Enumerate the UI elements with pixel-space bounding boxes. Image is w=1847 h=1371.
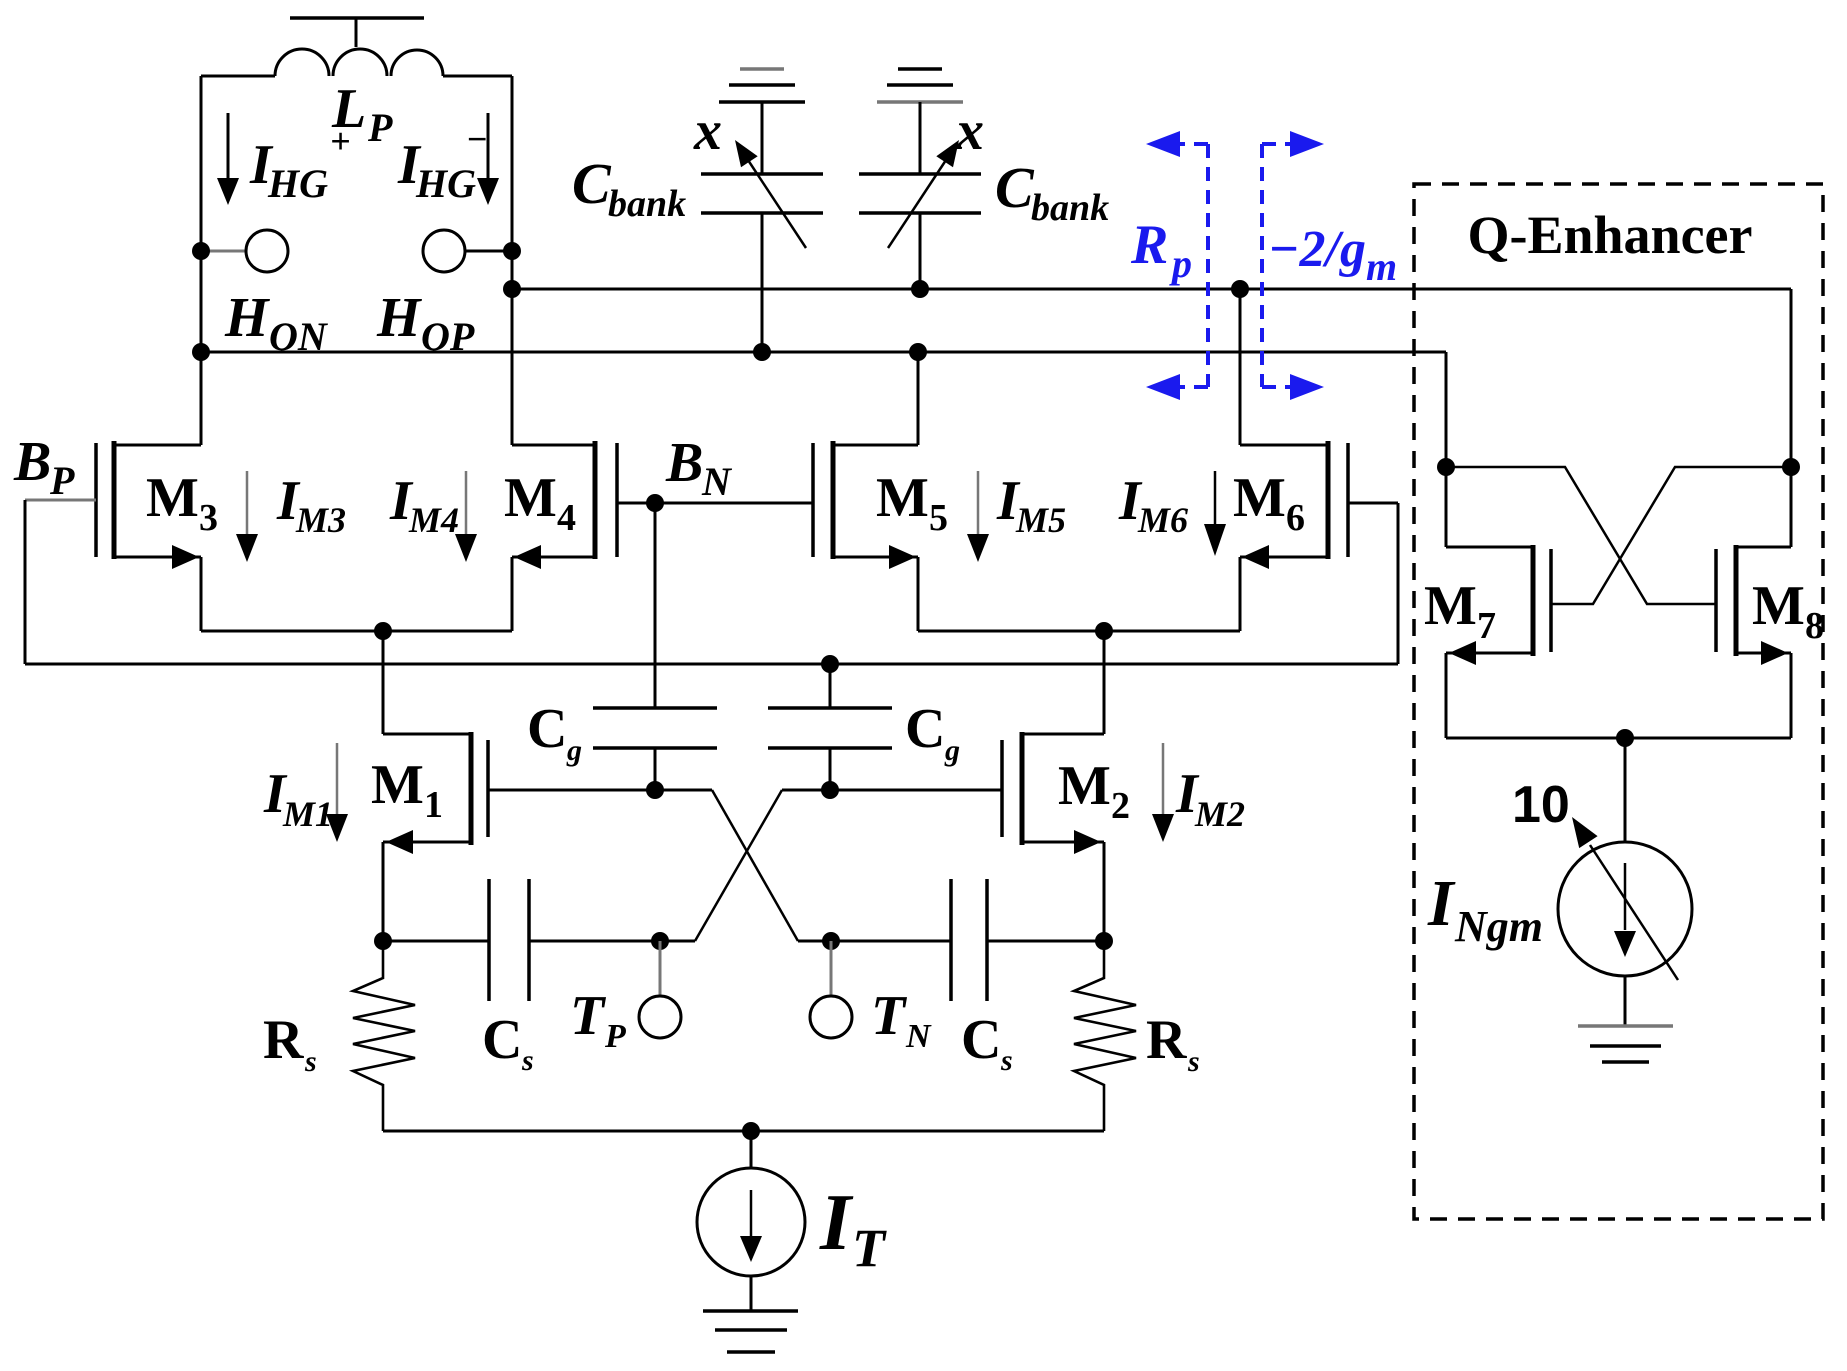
label M3 bbox=[146, 467, 218, 539]
svg-text:C: C bbox=[572, 151, 612, 216]
svg-text:g: g bbox=[944, 734, 960, 767]
svg-text:P: P bbox=[604, 1018, 626, 1055]
svg-text:M5: M5 bbox=[1015, 500, 1066, 540]
svg-text:M: M bbox=[371, 754, 424, 816]
svg-text:6: 6 bbox=[1286, 497, 1305, 539]
svg-text:B: B bbox=[665, 432, 703, 494]
capacitor Cs right bbox=[951, 879, 987, 1001]
svg-text:p: p bbox=[1169, 241, 1192, 286]
resistor Rs right bbox=[1074, 941, 1136, 1131]
svg-text:M: M bbox=[1424, 575, 1477, 637]
svg-text:R: R bbox=[1146, 1009, 1187, 1071]
label M2 bbox=[1058, 755, 1130, 827]
svg-text:B: B bbox=[13, 431, 51, 493]
label LP bbox=[331, 78, 393, 150]
wire bias rail (BP to M6 gate) bbox=[25, 663, 1398, 666]
label x (right Cbank) bbox=[955, 100, 984, 162]
variable current source INgm bbox=[1558, 817, 1692, 1026]
inductor LP bbox=[201, 49, 512, 76]
wire M2 source line bbox=[798, 932, 1113, 950]
svg-text:C: C bbox=[961, 1009, 1001, 1071]
svg-text:M: M bbox=[876, 467, 929, 529]
svg-text:C: C bbox=[995, 155, 1035, 220]
svg-text:M1: M1 bbox=[282, 794, 333, 834]
svg-text:s: s bbox=[1000, 1044, 1013, 1077]
wire lower rail into M7 drain bbox=[1437, 352, 1455, 476]
svg-text:M: M bbox=[1058, 755, 1111, 817]
current source IT bbox=[697, 1131, 805, 1311]
wire M1 gate lead bbox=[488, 781, 712, 799]
current arrow IM4 bbox=[455, 471, 477, 562]
label M1 bbox=[371, 754, 443, 826]
label Rs left bbox=[263, 1009, 317, 1078]
svg-text:M: M bbox=[1233, 467, 1286, 529]
svg-text:M4: M4 bbox=[408, 500, 459, 540]
transistor M2 (NMOS) bbox=[1002, 732, 1104, 941]
wire M3/M4 drain to M1 bbox=[382, 631, 385, 734]
label IM3 bbox=[276, 470, 346, 540]
label BP bbox=[13, 431, 75, 503]
svg-text:4: 4 bbox=[557, 497, 576, 539]
label Rp bbox=[1130, 214, 1192, 286]
label M4 bbox=[504, 467, 576, 539]
label Cg left bbox=[527, 698, 582, 767]
label Q-Enhancer bbox=[1467, 205, 1752, 265]
svg-text:P: P bbox=[367, 105, 393, 150]
wire upper rail into M8 drain bbox=[1782, 289, 1800, 476]
svg-text:M: M bbox=[146, 467, 199, 529]
label -2/gm bbox=[1268, 221, 1397, 289]
svg-text:T: T bbox=[871, 985, 908, 1047]
svg-text:m: m bbox=[1366, 244, 1397, 289]
svg-text:M: M bbox=[1752, 575, 1805, 637]
transistor M6 (PMOS) bbox=[1231, 280, 1348, 631]
label IT bbox=[819, 1179, 887, 1278]
terminal HOP bbox=[423, 230, 521, 272]
svg-text:T: T bbox=[570, 985, 607, 1047]
svg-text:g: g bbox=[566, 734, 582, 767]
svg-text:−2/g: −2/g bbox=[1268, 221, 1366, 278]
svg-text:s: s bbox=[521, 1044, 534, 1077]
svg-text:T: T bbox=[852, 1218, 887, 1278]
svg-text:−: − bbox=[466, 119, 488, 159]
wire rail HON (lower rail) bbox=[192, 343, 1446, 361]
capacitor Cg right bbox=[768, 655, 892, 790]
current arrow IHG- bbox=[477, 113, 499, 205]
transistor M1 (NMOS) bbox=[383, 732, 488, 941]
label IM4 bbox=[389, 470, 459, 540]
svg-text:N: N bbox=[905, 1018, 932, 1055]
wire M7 gate to M8 drain bbox=[1551, 467, 1791, 604]
transistor M7 (NMOS) bbox=[1446, 467, 1551, 738]
label TN bbox=[871, 985, 932, 1055]
svg-text:Q-Enhancer: Q-Enhancer bbox=[1467, 205, 1752, 265]
svg-text:HG: HG bbox=[415, 161, 476, 206]
wire BN vertical to Cg bbox=[654, 503, 657, 708]
label Rs right bbox=[1146, 1009, 1200, 1078]
wire M2 gate lead bbox=[782, 781, 1002, 799]
svg-text:I: I bbox=[819, 1179, 854, 1267]
current arrow IM1 bbox=[326, 743, 348, 842]
wire M5/M6 drain to M2 bbox=[1103, 631, 1106, 734]
label BN bbox=[665, 432, 733, 504]
svg-text:Ngm: Ngm bbox=[1454, 902, 1543, 951]
ground (below IT) bbox=[703, 1311, 798, 1352]
capacitor Cbank left bbox=[701, 174, 823, 213]
wire M5-M6 drain rail bbox=[918, 622, 1240, 640]
svg-text:1: 1 bbox=[424, 784, 443, 826]
label Cbank left bbox=[572, 151, 686, 225]
wire rail HOP (upper rail) bbox=[503, 280, 1791, 298]
wire right tank vertical (HOP node) bbox=[511, 76, 514, 445]
svg-text:s: s bbox=[1187, 1045, 1200, 1078]
wire M1 source line bbox=[374, 932, 695, 950]
svg-text:M6: M6 bbox=[1137, 500, 1188, 540]
svg-text:HG: HG bbox=[267, 161, 328, 206]
svg-text:I: I bbox=[1427, 867, 1456, 940]
wire cross-couple M2gate to M1source bbox=[695, 790, 782, 941]
svg-text:x: x bbox=[955, 100, 984, 162]
transistor M3 (PMOS) bbox=[96, 441, 201, 631]
svg-text:M3: M3 bbox=[295, 500, 346, 540]
label x (left Cbank) bbox=[693, 100, 722, 162]
svg-text:C: C bbox=[482, 1009, 522, 1071]
svg-text:5: 5 bbox=[929, 497, 948, 539]
svg-text:bank: bank bbox=[608, 183, 686, 225]
wire left tank vertical (HON node) bbox=[200, 76, 203, 445]
supply bar (inductor center tap) bbox=[290, 18, 424, 47]
wire right Cbank lower stem bbox=[911, 213, 929, 298]
label IHG+ bbox=[249, 121, 351, 206]
svg-text:x: x bbox=[693, 100, 722, 162]
wire left Cbank upper stem bbox=[761, 102, 764, 174]
wire left Cbank lower stem bbox=[753, 213, 771, 361]
wire cross-couple M1gate to M2source bbox=[712, 790, 798, 941]
wire tail rail bbox=[383, 1122, 1104, 1140]
svg-text:s: s bbox=[304, 1045, 317, 1078]
left Cbank variable arrow bbox=[735, 140, 806, 248]
terminal TP bbox=[639, 941, 681, 1038]
right Cbank variable arrow bbox=[888, 140, 959, 248]
current arrow IM2 bbox=[1152, 743, 1174, 842]
label IM1 bbox=[263, 763, 333, 834]
svg-text:8: 8 bbox=[1805, 605, 1824, 647]
svg-text:H: H bbox=[376, 287, 422, 349]
svg-text:C: C bbox=[905, 698, 945, 760]
svg-text:+: + bbox=[330, 121, 351, 161]
annotation -2/gm dashed bracket bbox=[1262, 131, 1324, 400]
label IHG- bbox=[397, 119, 488, 206]
label INgm bbox=[1427, 867, 1543, 951]
svg-text:N: N bbox=[701, 459, 733, 504]
wire BP vertical bbox=[24, 500, 27, 664]
transistor M5 (PMOS) bbox=[813, 343, 927, 631]
wire M3-M4 drain rail bbox=[201, 622, 512, 640]
svg-text:R: R bbox=[263, 1009, 304, 1071]
label HON bbox=[224, 287, 329, 359]
label IM6 bbox=[1118, 470, 1188, 540]
capacitor Cg left bbox=[593, 708, 717, 790]
svg-text:M: M bbox=[504, 467, 557, 529]
capacitor Cbank right bbox=[859, 174, 981, 213]
label Cs right bbox=[961, 1009, 1013, 1077]
Q-Enhancer dashed box bbox=[1414, 184, 1823, 1219]
svg-text:3: 3 bbox=[199, 497, 218, 539]
label IM2 bbox=[1175, 763, 1245, 834]
annotation Rp dashed bracket bbox=[1146, 131, 1208, 400]
wire M8 gate to M7 drain bbox=[1446, 467, 1716, 604]
wire M6 gate to bias rail bbox=[1348, 503, 1398, 664]
resistor Rs left bbox=[353, 941, 415, 1131]
svg-text:7: 7 bbox=[1477, 605, 1496, 647]
svg-text:2: 2 bbox=[1111, 785, 1130, 827]
ground (above left Cbank) bbox=[719, 69, 805, 102]
transistor M4 (PMOS) bbox=[512, 441, 617, 631]
label 10 bbox=[1512, 776, 1570, 834]
svg-text:H: H bbox=[224, 287, 270, 349]
wire BN (M4 gate to M5 gate) bbox=[617, 494, 813, 512]
current arrow IM3 bbox=[236, 471, 258, 562]
label M6 bbox=[1233, 467, 1305, 539]
svg-text:bank: bank bbox=[1031, 187, 1109, 229]
ground (below INgm) bbox=[1578, 1026, 1673, 1062]
svg-text:M2: M2 bbox=[1194, 794, 1245, 834]
label TP bbox=[570, 985, 626, 1055]
current arrow IM5 bbox=[967, 471, 989, 562]
svg-text:C: C bbox=[527, 698, 567, 760]
transistor M8 (NMOS) bbox=[1716, 467, 1791, 738]
label M8 bbox=[1752, 575, 1824, 647]
svg-text:10: 10 bbox=[1512, 776, 1570, 834]
svg-text:P: P bbox=[49, 458, 75, 503]
capacitor Cs left bbox=[489, 879, 529, 1001]
label Cg right bbox=[905, 698, 960, 767]
wire BP gate lead bbox=[25, 499, 96, 502]
current arrow IM6 bbox=[1204, 471, 1226, 556]
svg-text:R: R bbox=[1130, 214, 1168, 276]
wire right Cbank upper stem bbox=[919, 102, 922, 174]
wire M7/M8 sources join bbox=[1446, 729, 1791, 842]
label M7 bbox=[1424, 575, 1496, 647]
label IM5 bbox=[996, 470, 1066, 540]
label HOP bbox=[376, 287, 475, 359]
ground (above right Cbank) bbox=[877, 69, 963, 102]
label M5 bbox=[876, 467, 948, 539]
terminal TN bbox=[810, 941, 852, 1038]
label Cbank right bbox=[995, 155, 1109, 229]
terminal HON bbox=[192, 230, 288, 272]
current arrow IHG+ bbox=[217, 113, 239, 205]
label Cs left bbox=[482, 1009, 534, 1077]
